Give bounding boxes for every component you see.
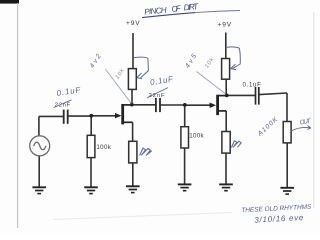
Q2 base arrow	[210, 103, 216, 109]
node B junction dot	[183, 103, 187, 107]
wire output resistor to ground	[286, 143, 288, 188]
blue wiper loop R1	[134, 57, 148, 79]
wire Q2 emitter down	[225, 111, 227, 132]
transistor Q2	[218, 95, 227, 115]
OUT arrow	[291, 126, 311, 132]
ground 2 (bias 1)	[84, 187, 98, 193]
wire Q1 emitter down	[132, 122, 134, 141]
svg-text:+9V: +9V	[218, 22, 232, 29]
handwritten note line 2 date	[254, 213, 304, 225]
blue wiper loop R2	[227, 47, 240, 70]
capacitor C3 output 0.1uF	[256, 87, 259, 105]
wire node A down to R bias 1	[90, 116, 92, 136]
title underline	[142, 13, 195, 18]
ground 5 (Q2 emitter)	[219, 184, 233, 190]
wire source to ground	[38, 155, 40, 187]
wire node B to Q2 base	[185, 104, 211, 106]
wire node A to Q1 base	[91, 115, 115, 117]
svg-text:0.1uF: 0.1uF	[243, 82, 262, 89]
title PINCH OF DIRT	[144, 2, 200, 17]
wire input source riser	[38, 116, 40, 136]
pointer line 4v2 to Q1 collector	[105, 69, 131, 103]
wire node B down to R bias 2	[184, 105, 186, 127]
ground 3 (Q1 emitter)	[126, 186, 140, 192]
Q1 base arrow	[115, 113, 121, 119]
resistor R2 10k (stage2 collector)	[222, 59, 230, 80]
handwritten 0.1uF C1	[56, 85, 82, 98]
handwritten A100K	[256, 116, 280, 138]
paper left edge line	[17, 3, 19, 228]
squiggle R3 on Q1 emitter resistor	[140, 148, 152, 156]
svg-text:+9V: +9V	[126, 20, 140, 27]
wire +9V supply 1	[132, 33, 134, 69]
handwritten 4v5 annotation	[184, 53, 198, 70]
svg-text:100k: 100k	[189, 132, 204, 139]
node A junction dot	[89, 114, 93, 118]
capacitor C2 coupling 22nF	[156, 98, 160, 112]
wire collector node to cap C2	[132, 104, 156, 106]
pointer line 4v5 to Q2 collector	[197, 72, 226, 95]
wire +9V supply 2	[225, 33, 227, 59]
resistor Q1 emitter	[129, 141, 137, 163]
handwritten note line 1	[241, 204, 312, 215]
input source V1	[30, 136, 50, 156]
handwritten 4v2 annotation	[89, 53, 103, 70]
handwritten 10k R2 rotated	[204, 56, 216, 69]
node collector Q1 junction dot	[130, 103, 134, 107]
paper right edge line	[313, 12, 315, 208]
wire R bias 2 to ground	[184, 148, 186, 184]
ground 6 (output)	[280, 188, 294, 194]
scanner black bar top-left	[0, 0, 19, 4]
wire cap C3 to output corner	[259, 93, 287, 95]
wire input left segment	[39, 115, 63, 117]
ground 1 (source)	[32, 187, 46, 193]
strike through 22nF C1	[54, 100, 72, 108]
handwritten 10k R1 rotated	[115, 67, 127, 80]
resistor 100k bias 1	[87, 135, 95, 157]
wire resistor1 to collector node	[131, 89, 133, 104]
capacitor C1 input 22nF	[64, 110, 68, 124]
node collector Q2 junction dot	[225, 94, 229, 98]
wire cap C1 to node A	[68, 115, 91, 117]
wire Q2 emitter resistor to ground	[225, 153, 227, 184]
svg-text:DIRT: DIRT	[183, 2, 199, 12]
handwritten 0.1uF C2	[149, 74, 174, 87]
resistor output volume	[283, 122, 291, 143]
squiggle R3 on Q2 emitter resistor	[231, 141, 241, 148]
paper bottom fold line	[53, 213, 232, 220]
handwritten OUT	[299, 118, 312, 127]
wire output corner down	[286, 93, 288, 122]
wire Q2 collector node to cap C3	[227, 94, 255, 96]
wire Q1 emitter resistor to ground	[132, 163, 134, 186]
wire cap C2 to node B	[161, 104, 185, 106]
wire resistor2 to Q2 collector node	[225, 79, 227, 95]
strike through 22nF C2	[147, 88, 168, 98]
resistor Q2 emitter	[222, 132, 230, 154]
wire R bias 1 to ground	[90, 158, 92, 187]
ground 4 (bias 2)	[178, 184, 192, 190]
resistor R1 10k (stage1 collector)	[128, 69, 136, 90]
resistor 100k bias 2	[181, 127, 189, 148]
transistor Q1	[123, 104, 133, 124]
svg-text:100k: 100k	[96, 144, 111, 151]
